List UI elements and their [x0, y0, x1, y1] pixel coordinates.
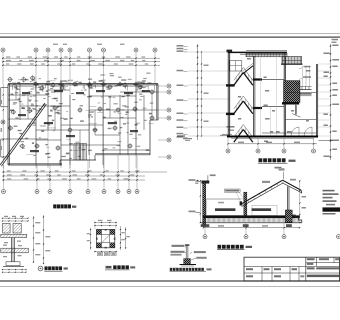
d-d detail bottom boxed figures [94, 251, 117, 256]
section A-A floor slab band [203, 215, 300, 218]
section A-A footing marks [201, 224, 292, 227]
floor plan top axis bubbles [1, 48, 157, 52]
floor plan outer walls [8, 84, 158, 165]
section 1-1 right dimension column [324, 44, 340, 160]
stair detail stem wall [11, 238, 14, 263]
stair detail upper hatched blocks [3, 223, 22, 233]
gutter detail caption [170, 268, 212, 272]
section A-A left wall hatched [195, 174, 215, 225]
floor plan top dimension figures [6, 56, 148, 64]
gutter detail group [170, 244, 212, 271]
floor plan overall dimension figures above bubbles [53, 44, 125, 45]
gutter detail hatched base block [184, 259, 191, 265]
d-d detail diagonal [102, 235, 109, 242]
section 1-1 roof slab [228, 52, 287, 54]
section 1-1 parapet hatched band [246, 53, 287, 57]
d-d detail mid-edge marks [96, 229, 115, 248]
section A-A right masonry block [285, 210, 292, 222]
floor plan top dimension lines [2, 58, 160, 66]
gutter detail base lines [180, 265, 197, 267]
floor plan right side axis bubbles [158, 84, 171, 159]
section 1-1 entry porch steps [220, 126, 235, 135]
floor plan interior partition walls [8, 84, 158, 165]
d-d detail outer square [97, 230, 115, 248]
section A-A room box right [252, 205, 277, 215]
title block cell texts [246, 258, 339, 277]
section A-A caption [217, 245, 252, 250]
stair detail caption with index bubble [38, 266, 68, 271]
section A-A ridge flag [275, 167, 285, 180]
sheet top border line (dark) [0, 36, 340, 38]
title block right rows [306, 257, 340, 273]
section 1-1 interior annotation marks [238, 58, 310, 142]
section 1-1 masonry speckled block [282, 81, 300, 105]
floor plan fixture cluster marks [11, 73, 151, 127]
floor plan annotation text marks [10, 78, 154, 159]
stair detail top dimension [2, 216, 29, 222]
section A-A right dimension line [299, 180, 306, 223]
floor plan bottom dimension lines [2, 170, 167, 180]
section A-A ceiling line [206, 198, 241, 200]
stair detail base [2, 262, 27, 273]
section A-A axis bubbles [203, 223, 286, 239]
section A-A left dimension line [200, 180, 201, 223]
stair detail group [1, 215, 68, 273]
axis bubble at legend bottom right edge [337, 235, 340, 239]
section 1-1 ground arrow right [319, 139, 334, 141]
section 1-1 stair chevron flights [234, 63, 253, 142]
section 1-1 building left wall [227, 50, 233, 137]
section 1-1 bottom dimension line [227, 142, 317, 145]
section 1-1 left dimension line [197, 44, 202, 140]
section 1-1 ground slab [227, 136, 318, 139]
section 1-1 group [177, 39, 340, 171]
section 1-1 grade mark left [177, 135, 192, 140]
stair detail right dimension lines [33, 215, 50, 264]
section 1-1 terrace railing [299, 86, 312, 95]
section 1-1 axis bubbles [226, 138, 316, 153]
floor plan top wall door jambs [12, 79, 154, 92]
floor plan left edge axis bubble [1, 120, 5, 124]
floor plan column symbols [7, 75, 155, 151]
section 1-1 ground-floor door arcs [291, 127, 312, 136]
gutter detail label boxes [171, 245, 207, 260]
section 1-1 upper-right hatched parapet [281, 57, 303, 65]
section A-A right roof slope [282, 180, 302, 193]
materials legend list [323, 190, 340, 215]
section 1-1 top-right small labels [332, 39, 339, 43]
floor plan bottom axis bubbles [2, 190, 140, 194]
section 1-1 left elevation labels [177, 45, 188, 138]
section 1-1 floor extension lines [188, 52, 228, 136]
section 1-1 caption [258, 158, 296, 170]
stair detail upper beam [1, 234, 27, 237]
section A-A right wall [288, 186, 289, 210]
section 1-1 terrace step wall [292, 105, 301, 117]
floor plan left dimension column [1, 84, 4, 168]
floor plan caption [53, 204, 76, 208]
stair detail small marks [3, 241, 22, 258]
sheet bottom border line (light) [0, 286, 340, 288]
d-d detail top dimension [94, 220, 117, 230]
floor plan bottom axis leaders [4, 155, 138, 189]
section A-A slope labels [262, 179, 296, 183]
d-d detail inner square [102, 235, 110, 243]
gutter detail pipe [185, 244, 190, 258]
d-d detail group [87, 220, 135, 270]
title block main divider [305, 257, 307, 281]
section A-A interior post [244, 192, 247, 215]
section A-A bottom dimension line [203, 225, 300, 228]
sheet bottom border line (dark) [0, 280, 340, 282]
section A-A group [189, 167, 307, 250]
section A-A left elevation flags [189, 179, 201, 212]
section 1-1 interior wall [284, 52, 285, 137]
floor plan section cut diagonal [0, 103, 46, 166]
section A-A main left roof slope [241, 180, 284, 206]
section A-A slab hatch below [201, 218, 303, 223]
section 1-1 stairwell mid wall [254, 56, 255, 136]
sheet top border line (light) [0, 33, 340, 35]
title block left rows [244, 267, 306, 282]
section A-A room box left [207, 199, 244, 215]
section 1-1 mid column level labels [204, 65, 209, 122]
floor plan room label boxes [18, 90, 150, 152]
section 1-1 stair window [229, 61, 242, 72]
section 1-1 right wall [316, 64, 317, 137]
floor plan inner wall face lines [10, 85, 148, 87]
floor plan stair hatch [74, 144, 87, 161]
d-d detail left dimension [87, 228, 91, 250]
d-d detail right dimensions [120, 226, 130, 250]
d-d detail corner masonry blocks [97, 230, 115, 248]
floor plan left bay windows [1, 88, 8, 158]
section 1-1 right extension lines [318, 64, 331, 136]
section 1-1 terrace pergola posts [303, 66, 310, 86]
stair detail mid flange [1, 248, 29, 253]
section 1-1 interior light verticals [260, 56, 276, 136]
d-d detail caption [105, 265, 135, 270]
section A-A eaves gutter [240, 201, 242, 205]
floor plan axis leader lines [3, 52, 155, 168]
section A-A right steps [292, 215, 302, 222]
section A-A roof note box [224, 189, 243, 201]
section 1-1 parapet top line [246, 50, 287, 52]
floor plan group [1, 44, 160, 168]
title block table [244, 257, 340, 281]
section 1-1 right elevation labels [299, 66, 311, 80]
section 1-1 floor slabs and landings [226, 78, 316, 133]
